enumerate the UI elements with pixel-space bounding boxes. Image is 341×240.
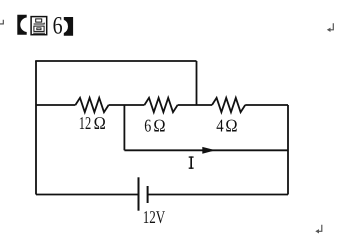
current arrow head	[202, 147, 215, 154]
paragraph mark (left edge, partial)	[0, 20, 3, 24]
wire: left vertical	[35, 61, 37, 195]
wire: top horizontal	[35, 60, 196, 62]
paragraph mark (bottom right)	[318, 225, 322, 232]
battery short plate	[147, 186, 149, 203]
wire: resistor row right segment	[245, 104, 288, 106]
svg-text:Ω: Ω	[153, 116, 165, 136]
wire: right vertical	[287, 105, 289, 195]
title bracket 】	[64, 17, 73, 36]
title character 圖	[31, 17, 47, 35]
wire: vertical drop from top to node between 6 and 4 ohm	[196, 61, 198, 105]
wire: bottom right segment from battery	[148, 194, 288, 196]
svg-text:Ω: Ω	[225, 116, 237, 136]
wire: main resistor row, left segment	[36, 104, 75, 106]
title bracket 【	[17, 15, 26, 35]
wire: between 6Ω and 4Ω	[178, 104, 212, 106]
label I	[189, 156, 194, 168]
resistor 6Ω	[144, 98, 177, 112]
wire: bottom left segment to battery	[36, 194, 139, 196]
paragraph mark (top right)	[330, 23, 334, 30]
svg-text:12V: 12V	[143, 207, 166, 227]
resistor 4Ω	[212, 98, 245, 112]
wire: between 12Ω and 6Ω	[109, 104, 145, 106]
battery long plate	[138, 177, 140, 210]
svg-text:4: 4	[216, 116, 223, 136]
svg-text:6: 6	[53, 13, 63, 40]
svg-text:12: 12	[79, 113, 91, 133]
resistor 12Ω	[75, 98, 108, 112]
svg-text:6: 6	[144, 116, 151, 136]
wire: current branch horizontal	[124, 149, 288, 151]
wire: mid drop from node between 12 and 6 ohm	[123, 105, 125, 150]
svg-text:Ω: Ω	[94, 113, 106, 133]
